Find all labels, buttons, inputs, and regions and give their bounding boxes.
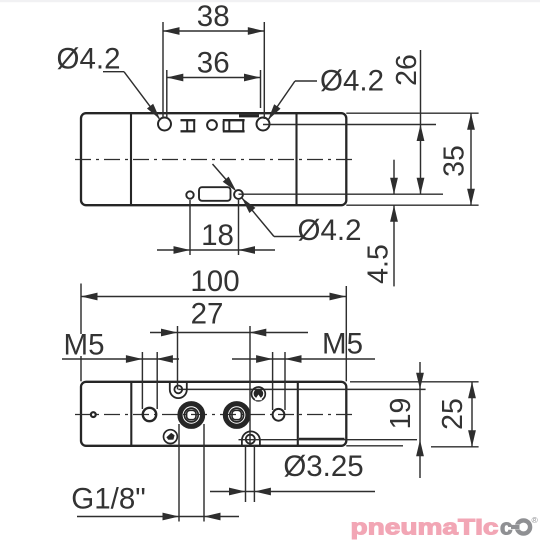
svg-text:4.5: 4.5 — [362, 244, 394, 284]
svg-text:Ø3.25: Ø3.25 — [283, 450, 363, 483]
svg-text:Ø4.2: Ø4.2 — [298, 214, 362, 247]
svg-text:27: 27 — [191, 298, 224, 331]
svg-text:G1/8": G1/8" — [71, 483, 145, 516]
svg-text:®: ® — [532, 515, 539, 525]
svg-text:38: 38 — [197, 0, 230, 33]
svg-text:19: 19 — [385, 398, 417, 430]
svg-text:Ø4.2: Ø4.2 — [57, 43, 121, 76]
svg-text:Ø4.2: Ø4.2 — [320, 65, 384, 98]
svg-text:pneumaTIc: pneumaTIc — [351, 515, 499, 540]
svg-text:35: 35 — [439, 145, 471, 177]
svg-text:M5: M5 — [322, 328, 363, 361]
svg-text:26: 26 — [391, 54, 423, 86]
svg-text:c: c — [500, 515, 513, 540]
svg-text:100: 100 — [190, 265, 239, 298]
svg-text:25: 25 — [437, 398, 469, 430]
svg-text:36: 36 — [197, 47, 230, 80]
svg-text:18: 18 — [201, 219, 234, 252]
svg-text:M5: M5 — [64, 329, 105, 362]
